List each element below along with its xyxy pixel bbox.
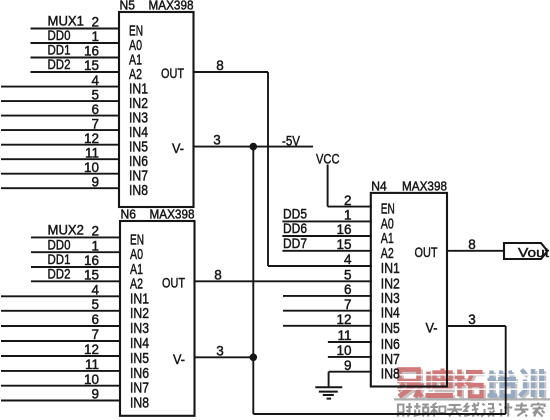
wire N5 IN7 input line <box>1 173 120 175</box>
wire N6 A2 stub <box>31 280 121 282</box>
svg-text:OUT: OUT <box>161 65 184 81</box>
svg-text:8: 8 <box>468 237 476 252</box>
svg-text:3: 3 <box>468 312 476 327</box>
wire N6 IN4 input line <box>1 340 121 342</box>
svg-text:2: 2 <box>91 15 99 30</box>
svg-text:IN8: IN8 <box>381 366 400 383</box>
svg-text:7: 7 <box>91 327 99 342</box>
svg-text:9: 9 <box>91 174 99 189</box>
svg-text:11: 11 <box>85 145 99 160</box>
svg-text:16: 16 <box>336 222 351 237</box>
wire -5V net down to bottom rail <box>252 357 254 414</box>
wire N6 IN1 input line <box>1 295 121 297</box>
svg-text:6: 6 <box>91 312 99 327</box>
svg-text:3: 3 <box>216 343 224 358</box>
svg-text:11: 11 <box>337 328 351 343</box>
wire N6 IN5 input line <box>1 355 121 357</box>
svg-text:12: 12 <box>84 131 99 146</box>
svg-text:MUX1: MUX1 <box>48 14 85 29</box>
svg-text:OUT: OUT <box>162 274 185 290</box>
svg-text:6: 6 <box>344 282 352 297</box>
svg-text:MAX398: MAX398 <box>149 0 194 13</box>
wire N5 IN1 input line <box>1 86 120 88</box>
wire -5V net vertical <box>252 147 254 358</box>
svg-text:IN5: IN5 <box>381 320 400 337</box>
svg-text:IN8: IN8 <box>130 395 149 412</box>
svg-text:Vout: Vout <box>518 245 549 260</box>
wire N4 IN8 to ground <box>329 371 372 373</box>
wire N4 V- (pin 3) <box>447 325 506 327</box>
wire N5 V- (pin 3) to -5V <box>194 146 314 148</box>
svg-text:IN8: IN8 <box>129 182 148 199</box>
chip N6 MAX398 body <box>120 221 195 416</box>
watermark underline <box>394 398 550 400</box>
wire N5 OUT (pin 8) to N4 IN1 (pin 4): right, down, right <box>194 71 269 73</box>
wire N6 IN3 input line <box>1 325 121 327</box>
svg-text:8: 8 <box>216 58 224 73</box>
svg-text:12: 12 <box>336 312 351 327</box>
wire N4 A0 stub <box>282 220 371 222</box>
wire N5 IN4 input line <box>1 129 120 131</box>
junction node on -5V net at N6 V- <box>250 354 258 362</box>
watermark logo text (red+blue CJK brand), with grey drop shadow <box>395 369 548 400</box>
svg-text:4: 4 <box>91 283 99 298</box>
svg-text:N5: N5 <box>120 0 136 13</box>
svg-text:5: 5 <box>91 297 99 312</box>
wire N6 IN6 input line <box>1 370 121 372</box>
svg-text:10: 10 <box>84 160 99 175</box>
wire N6 A0 stub <box>31 251 121 253</box>
wire N6 IN7 input line <box>1 385 121 387</box>
svg-text:2: 2 <box>344 193 352 208</box>
svg-text:15: 15 <box>84 268 99 283</box>
svg-text:DD1: DD1 <box>48 43 71 58</box>
wire N6 V- (pin 3) to -5V net <box>195 356 254 358</box>
svg-text:DD0: DD0 <box>48 28 71 43</box>
svg-text:16: 16 <box>84 253 99 268</box>
junction node on -5V net at N5 V- <box>250 143 258 151</box>
output port symbol Vout <box>504 243 548 259</box>
svg-text:2: 2 <box>91 224 99 239</box>
svg-text:15: 15 <box>84 58 99 73</box>
wire N5 A2 stub <box>31 71 121 73</box>
wire N6 IN2 input line <box>1 310 121 312</box>
wire N4 A1 stub <box>282 235 371 237</box>
svg-text:-5V: -5V <box>282 133 300 148</box>
wire N4 EN stub from VCC <box>328 206 372 208</box>
svg-text:DD2: DD2 <box>48 57 71 72</box>
chip N5 MAX398 body <box>119 12 194 207</box>
wire N4 IN7 stub <box>328 356 372 358</box>
svg-text:1: 1 <box>344 208 352 223</box>
wire N4 OUT (pin 8) to Vout port <box>447 250 504 252</box>
svg-text:DD5: DD5 <box>283 207 307 222</box>
chip N4 MAX398 body <box>371 193 447 387</box>
svg-text:OUT: OUT <box>415 244 438 260</box>
wire N4 IN5 stub <box>283 325 372 327</box>
svg-text:10: 10 <box>84 372 99 387</box>
wire N6 EN stub <box>31 236 121 238</box>
svg-text:MAX398: MAX398 <box>402 179 447 193</box>
wire N4 IN6 stub <box>328 341 372 343</box>
svg-text:V-: V- <box>173 351 185 367</box>
svg-text:4: 4 <box>91 73 99 88</box>
svg-text:10: 10 <box>336 343 351 358</box>
svg-text:7: 7 <box>91 116 99 131</box>
svg-text:DD2: DD2 <box>48 267 71 282</box>
svg-text:9: 9 <box>344 358 352 373</box>
wire N6 IN8 input line <box>1 400 121 402</box>
svg-text:DD1: DD1 <box>48 252 71 267</box>
svg-text:MAX398: MAX398 <box>150 208 195 222</box>
svg-text:16: 16 <box>84 44 99 59</box>
svg-text:1: 1 <box>91 29 99 44</box>
svg-text:12: 12 <box>84 342 99 357</box>
wire -5V rail up to N4 V- <box>505 326 507 414</box>
svg-text:3: 3 <box>213 133 221 148</box>
svg-text:9: 9 <box>91 387 99 402</box>
svg-text:7: 7 <box>344 297 352 312</box>
wire N5 EN stub <box>31 28 121 30</box>
ground symbol <box>315 386 342 388</box>
svg-text:8: 8 <box>214 267 222 282</box>
watermark slogan text (grey CJK) <box>398 403 545 417</box>
svg-text:6: 6 <box>91 102 99 117</box>
svg-text:V-: V- <box>426 320 438 336</box>
svg-text:N4: N4 <box>371 179 387 193</box>
wire N4 A2 stub <box>282 250 371 252</box>
wire N4 IN3 stub <box>283 295 372 297</box>
svg-text:DD7: DD7 <box>283 236 307 251</box>
wire ground stem <box>328 372 330 388</box>
power symbol VCC <box>327 165 329 207</box>
wire N5 A1 stub <box>31 57 121 59</box>
wire N5 IN5 input line <box>1 144 120 146</box>
svg-text:N6: N6 <box>121 208 137 222</box>
svg-text:15: 15 <box>336 237 351 252</box>
svg-text:MUX2: MUX2 <box>48 223 85 238</box>
svg-text:DD6: DD6 <box>283 221 307 236</box>
svg-text:5: 5 <box>344 268 352 283</box>
svg-text:DD0: DD0 <box>48 237 71 252</box>
wire N6 A1 stub <box>31 266 121 268</box>
wire N5 A0 stub <box>31 42 121 44</box>
svg-text:11: 11 <box>85 357 99 372</box>
wire -5V bottom rail <box>253 413 505 415</box>
svg-text:5: 5 <box>91 87 99 102</box>
svg-text:4: 4 <box>344 252 352 267</box>
wire N5 IN6 input line <box>1 158 120 160</box>
wire N5 IN3 input line <box>1 115 120 117</box>
svg-text:1: 1 <box>91 238 99 253</box>
wire N6 OUT (pin 8) to N4 IN2 (pin 5) <box>195 280 372 282</box>
svg-text:VCC: VCC <box>316 152 340 167</box>
wire N4 IN4 stub <box>283 310 372 312</box>
wire N5 IN8 input line <box>1 187 120 189</box>
svg-text:V-: V- <box>172 140 184 156</box>
wire N5 IN2 input line <box>1 100 120 102</box>
